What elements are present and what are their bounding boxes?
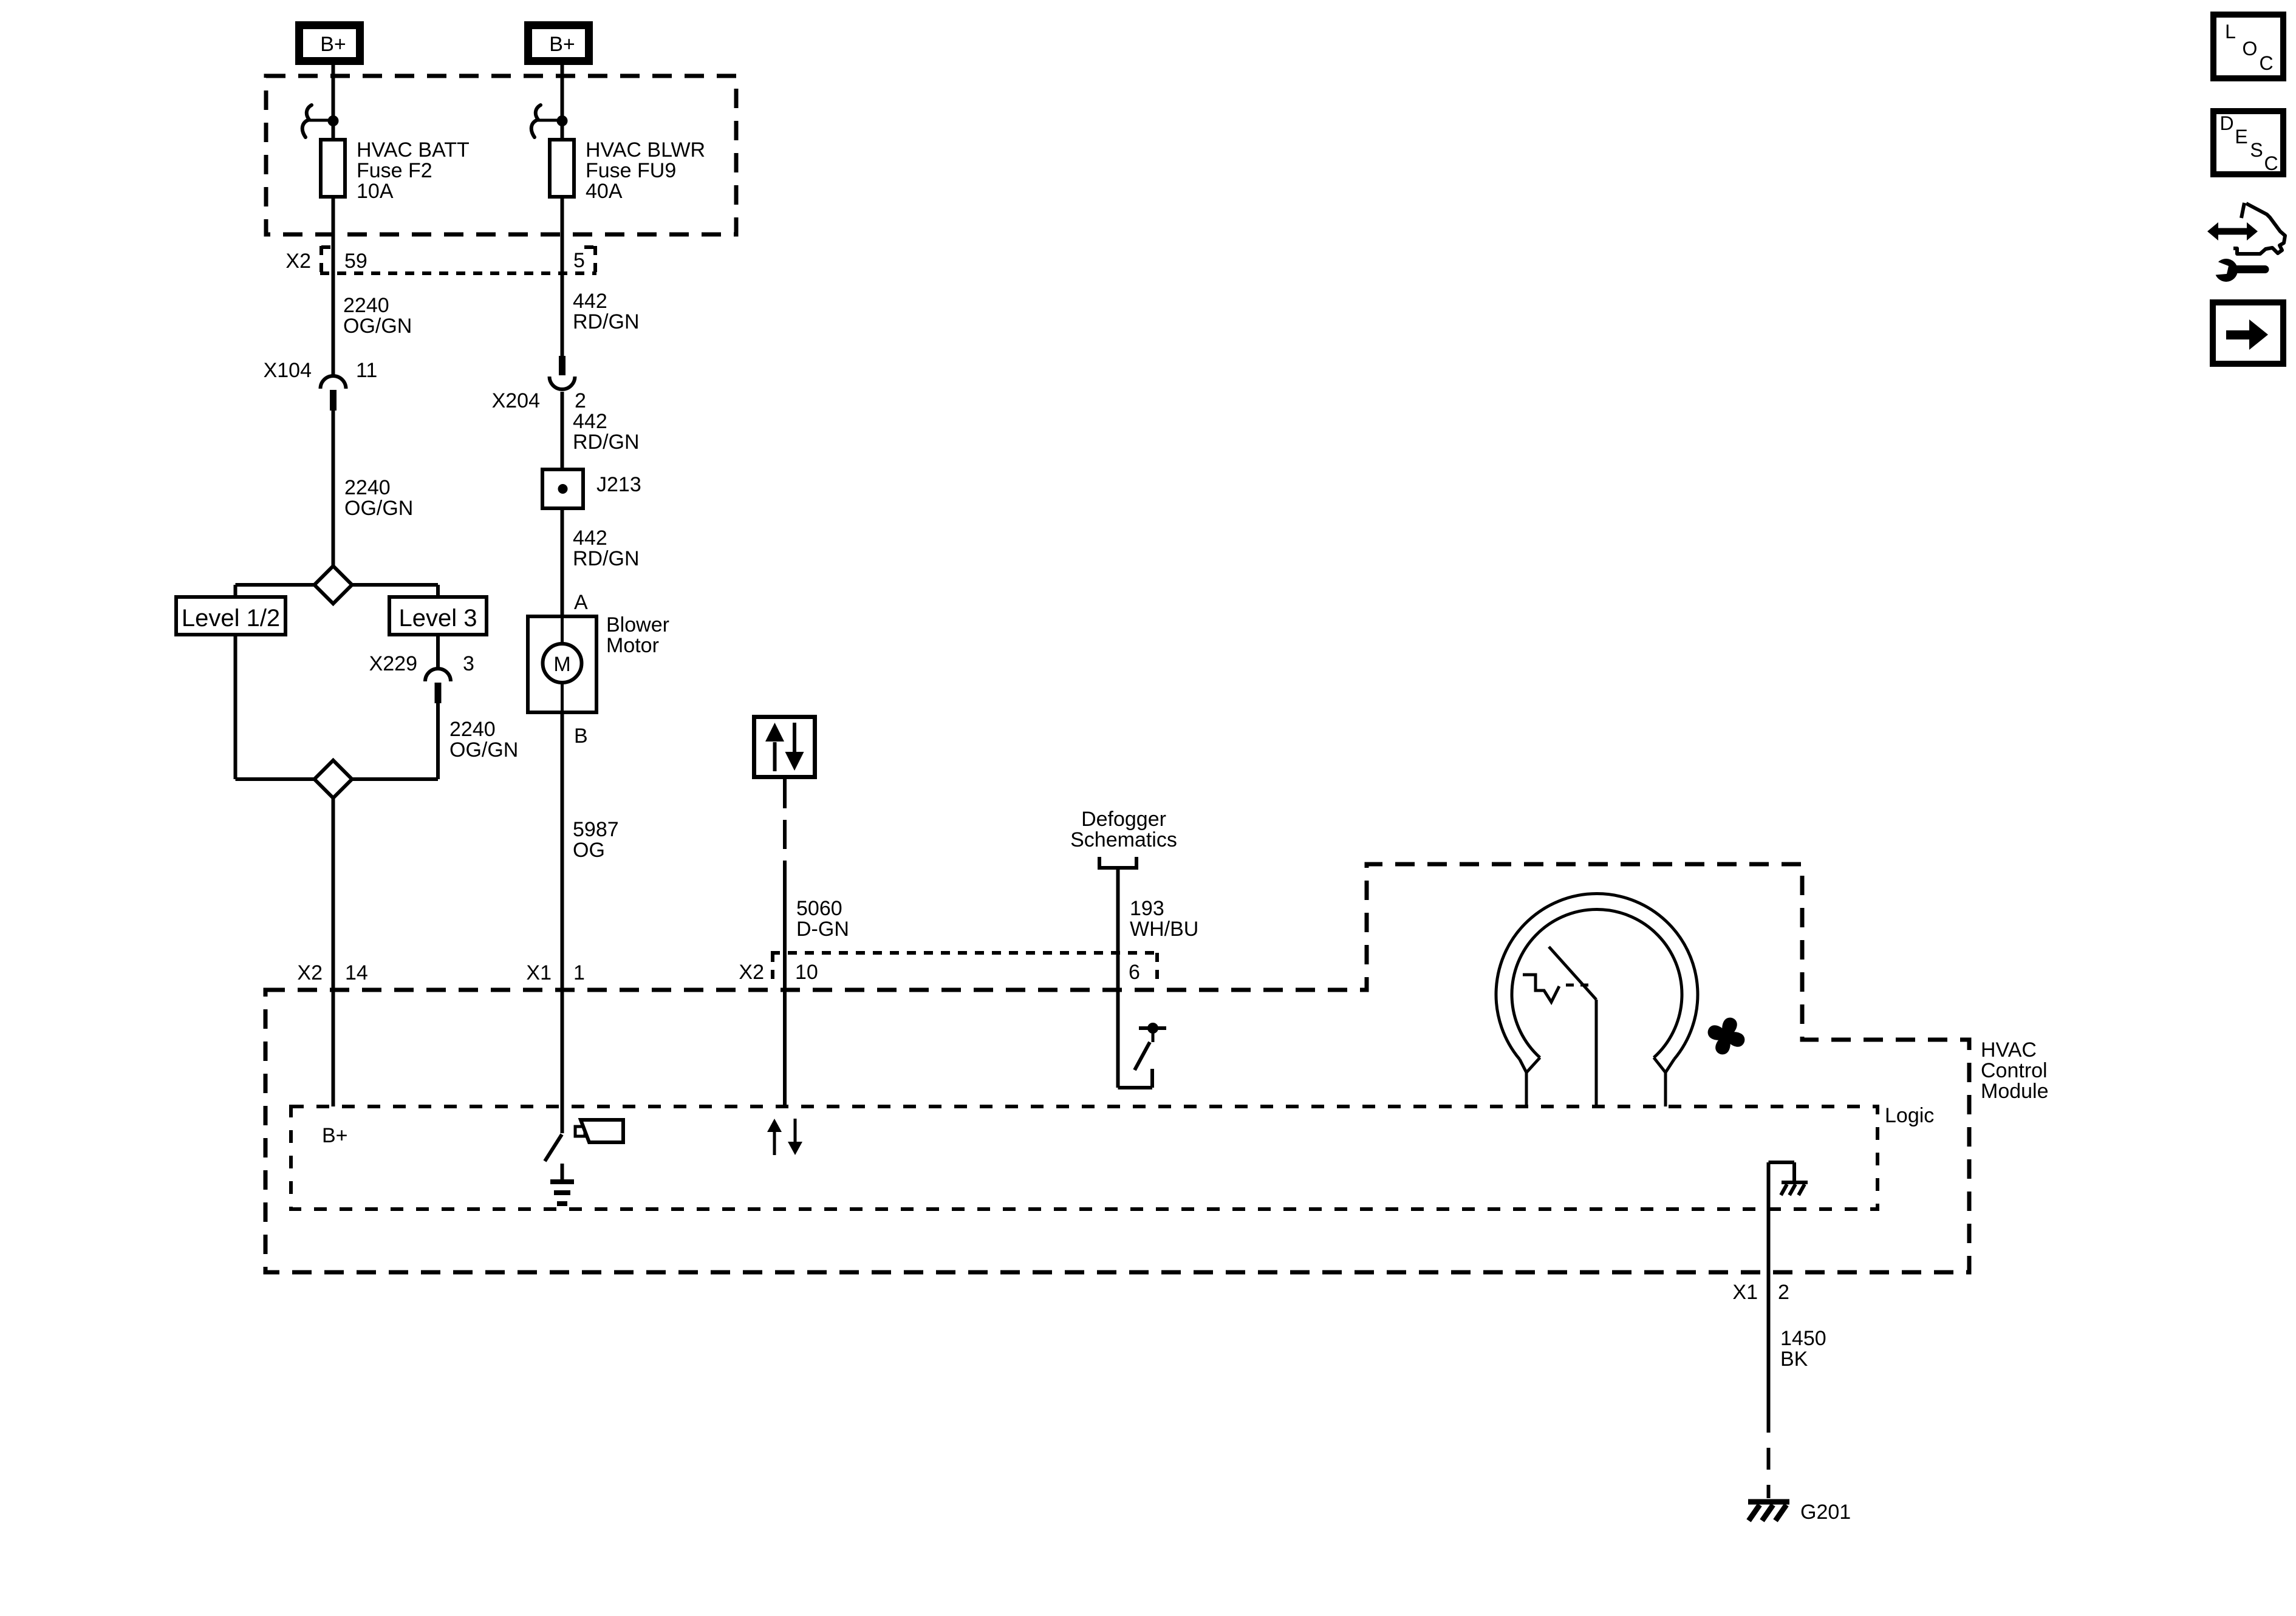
- svg-text:3: 3: [463, 652, 474, 675]
- svg-text:Schematics: Schematics: [1070, 828, 1177, 851]
- connector label X1 2: [1732, 1281, 1789, 1304]
- svg-text:Fuse FU9: Fuse FU9: [586, 159, 676, 182]
- Level 1/2 box: [176, 597, 285, 635]
- wire from B+ 1 to fuse F2: [332, 65, 335, 141]
- defogger request switch in module: [1118, 1023, 1167, 1088]
- splice J213: [542, 469, 641, 508]
- wire fuse F2 to connector X104: [332, 196, 335, 377]
- fan pinwheel: [1703, 1013, 1750, 1060]
- svg-text:HVAC BATT: HVAC BATT: [357, 138, 470, 162]
- fuse block dashed box: [266, 76, 736, 234]
- svg-text:OG/GN: OG/GN: [343, 315, 412, 338]
- internal ground below switch: [550, 1164, 574, 1204]
- svg-text:Defogger: Defogger: [1081, 808, 1166, 831]
- B+ label in logic box: [322, 1124, 348, 1147]
- svg-text:B+: B+: [320, 33, 346, 56]
- Level 3 box: [389, 597, 487, 635]
- wire to HVAC module connector X2 10: [783, 890, 787, 1106]
- svg-text:D-GN: D-GN: [796, 918, 849, 941]
- svg-text:B+: B+: [549, 33, 575, 56]
- svg-text:BK: BK: [1780, 1348, 1808, 1371]
- connector row X2 10 and 6: [739, 953, 1157, 987]
- svg-text:10A: 10A: [357, 180, 394, 203]
- ring legs: [1526, 1000, 1666, 1106]
- blower driver switch in module: [545, 1134, 562, 1161]
- fuse clip hook 2: [531, 105, 560, 137]
- wire label 2240 OG/GN second: [344, 476, 413, 520]
- wire blower motor to HVAC module: [561, 712, 564, 1133]
- svg-text:X2: X2: [285, 250, 311, 273]
- svg-text:X104: X104: [264, 359, 312, 382]
- svg-text:L: L: [2225, 21, 2236, 43]
- svg-text:HVAC: HVAC: [1981, 1038, 2037, 1062]
- Logic label: [1885, 1104, 1934, 1127]
- svg-text:11: 11: [356, 359, 377, 382]
- wire label 1450 BK: [1780, 1327, 1826, 1371]
- HVAC control module boundary: [265, 864, 1969, 1272]
- svg-text:2: 2: [575, 389, 586, 412]
- svg-text:X2: X2: [297, 961, 323, 984]
- wire J213 to blower motor: [561, 508, 564, 618]
- actuator symbol: [575, 1120, 623, 1142]
- vehicle outline icon: [2233, 203, 2285, 254]
- current path loop bottom: [236, 777, 439, 781]
- logic box: [291, 1106, 1877, 1209]
- svg-text:M: M: [553, 653, 570, 676]
- fuse F2 HVAC BATT 10A: [321, 138, 470, 203]
- svg-text:Level 3: Level 3: [399, 605, 477, 632]
- svg-text:RD/GN: RD/GN: [573, 547, 640, 570]
- svg-text:10: 10: [795, 961, 818, 984]
- svg-text:2240: 2240: [344, 476, 391, 499]
- svg-text:Logic: Logic: [1885, 1104, 1934, 1127]
- current path diamond bottom: [315, 760, 352, 798]
- svg-text:X2: X2: [739, 961, 764, 984]
- svg-text:RD/GN: RD/GN: [573, 431, 640, 454]
- svg-text:O: O: [2243, 38, 2258, 60]
- svg-text:Control: Control: [1981, 1059, 2048, 1082]
- svg-text:2: 2: [1778, 1281, 1789, 1304]
- svg-text:C: C: [2264, 152, 2278, 174]
- svg-text:X229: X229: [369, 652, 417, 675]
- wire X204 to splice J213: [561, 392, 564, 471]
- wire label 2240 OG/GN third: [449, 718, 518, 762]
- svg-text:WH/BU: WH/BU: [1130, 918, 1198, 941]
- junction dot on wire 2: [557, 115, 568, 126]
- svg-text:442: 442: [573, 290, 607, 313]
- svg-text:Blower: Blower: [606, 613, 669, 636]
- svg-text:Module: Module: [1981, 1080, 2049, 1103]
- thermal element: [1523, 975, 1593, 1002]
- fuse FU9 HVAC BLWR 40A: [550, 138, 705, 203]
- wire label 2240 OG/GN: [343, 294, 412, 338]
- svg-text:5: 5: [573, 249, 585, 272]
- svg-text:J213: J213: [596, 473, 641, 496]
- svg-text:442: 442: [573, 527, 607, 550]
- double headed arrow icon: [2207, 222, 2258, 240]
- wire fuse FU9 to connector X204: [561, 196, 564, 357]
- in-line connector X229 pin 3: [369, 652, 474, 703]
- svg-text:6: 6: [1129, 961, 1140, 984]
- svg-text:2240: 2240: [449, 718, 496, 741]
- svg-text:Fuse F2: Fuse F2: [357, 159, 432, 182]
- LOC reference box: [2213, 15, 2283, 78]
- svg-text:G201: G201: [1800, 1501, 1851, 1524]
- svg-text:X204: X204: [492, 389, 540, 412]
- svg-text:D: D: [2219, 112, 2233, 134]
- svg-text:2240: 2240: [343, 294, 389, 317]
- svg-text:E: E: [2235, 126, 2247, 148]
- up-down signal box: [754, 717, 815, 777]
- ground G201: [1748, 1501, 1851, 1524]
- svg-text:RD/GN: RD/GN: [573, 310, 640, 333]
- svg-text:59: 59: [344, 250, 367, 273]
- svg-text:OG/GN: OG/GN: [449, 738, 518, 762]
- wire diamond bottom to HVAC module: [332, 798, 335, 1106]
- wire label 193 WH/BU: [1130, 897, 1198, 941]
- svg-text:Motor: Motor: [606, 634, 659, 657]
- svg-text:X1: X1: [1732, 1281, 1758, 1304]
- svg-text:14: 14: [345, 961, 368, 984]
- svg-text:193: 193: [1130, 897, 1164, 920]
- wire X104 to current path diamond: [332, 411, 335, 567]
- fuse clip hook 1: [302, 105, 331, 137]
- svg-text:5060: 5060: [796, 897, 842, 920]
- dashed wire below up-down box: [783, 779, 787, 890]
- svg-text:1: 1: [573, 961, 585, 984]
- blower speed control ring inner arc: [1512, 909, 1682, 1057]
- svg-text:1450: 1450: [1780, 1327, 1826, 1350]
- svg-text:A: A: [574, 591, 588, 614]
- B+ battery feed 1: [299, 26, 360, 61]
- svg-text:5987: 5987: [573, 818, 619, 841]
- svg-text:OG/GN: OG/GN: [344, 497, 413, 520]
- in-line connector X104 pin 11: [264, 359, 378, 411]
- current path loop left branch: [234, 585, 237, 779]
- ring end cuts: [1520, 1058, 1674, 1073]
- wire dashed to G201: [1767, 1411, 1771, 1498]
- wrench icon: [2212, 259, 2265, 282]
- B+ battery feed 2: [528, 26, 589, 61]
- wire label 5060 D-GN: [796, 897, 849, 941]
- internal ground right side: [1769, 1162, 1808, 1272]
- connector row X2 of fuse block: [285, 246, 596, 273]
- svg-text:X1: X1: [526, 961, 552, 984]
- svg-text:C: C: [2259, 52, 2273, 74]
- wire label 442 RD/GN second: [573, 410, 640, 454]
- connector label X1 1: [526, 961, 585, 984]
- wire defogger to HVAC module pin 6: [1116, 868, 1120, 1088]
- blower motor pin B: [574, 724, 588, 748]
- blower motor pin A: [574, 591, 588, 614]
- blower motor: [528, 613, 669, 712]
- up-down arrows in logic box: [767, 1119, 802, 1155]
- forward arrow box: [2213, 302, 2283, 364]
- blower speed control ring outer arc: [1496, 894, 1698, 1060]
- wire label 5987 OG: [573, 818, 619, 862]
- HVAC Control Module label: [1981, 1038, 2049, 1103]
- current path loop horizontal top: [236, 583, 439, 587]
- Defogger Schematics reference: [1070, 808, 1177, 868]
- current path diamond top: [315, 566, 352, 604]
- DESC reference box: [2213, 111, 2283, 174]
- svg-text:HVAC BLWR: HVAC BLWR: [586, 138, 705, 162]
- in-line connector X204 pin 2: [492, 356, 586, 412]
- svg-text:B+: B+: [322, 1124, 348, 1147]
- current path loop right branch upper: [436, 585, 440, 669]
- wire label 442 RD/GN: [573, 290, 640, 333]
- svg-text:40A: 40A: [586, 180, 623, 203]
- svg-text:442: 442: [573, 410, 607, 433]
- svg-text:OG: OG: [573, 839, 605, 862]
- wire label 442 RD/GN third: [573, 527, 640, 570]
- speed control wiper: [1549, 947, 1596, 1000]
- svg-text:B: B: [574, 724, 588, 748]
- connector label X2 14: [297, 961, 367, 984]
- svg-text:Level 1/2: Level 1/2: [182, 605, 280, 632]
- wire module to G201 solid: [1767, 1272, 1771, 1411]
- wire from B+ 2 to fuse FU9: [561, 65, 564, 141]
- junction dot on wire 1: [328, 115, 339, 126]
- svg-text:S: S: [2250, 139, 2263, 161]
- wire X229 to loop bottom: [436, 703, 440, 779]
